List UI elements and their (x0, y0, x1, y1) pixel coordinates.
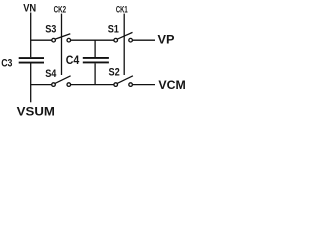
wire CK1 control line (123, 14, 125, 75)
switch S3 (52, 34, 71, 42)
svg-text:VCM: VCM (158, 78, 185, 92)
switch S2 (114, 76, 133, 87)
switch S1 (114, 32, 133, 42)
wire top plate C4 stem (94, 40, 96, 57)
svg-text:C4: C4 (66, 55, 80, 67)
wire S4 to S2 (71, 84, 114, 86)
svg-text:VSUM: VSUM (17, 104, 55, 118)
wire S1 to VP (133, 39, 155, 41)
svg-text:VP: VP (158, 32, 175, 46)
capacitor C4 (83, 58, 109, 63)
svg-text:S3: S3 (45, 23, 56, 35)
wire bottom plate C4 stem (94, 63, 96, 84)
wire VSUM to S4 branch (31, 84, 52, 86)
wire S2 to VCM (133, 84, 155, 86)
svg-text:VN: VN (23, 2, 36, 14)
wire VN to S3 branch (31, 39, 52, 41)
wire CK2 control line (61, 14, 63, 75)
wire C3 to VSUM vertical (30, 64, 32, 103)
svg-text:S2: S2 (109, 66, 120, 78)
capacitor C3 (19, 58, 44, 63)
wire S3 to S1 (71, 39, 114, 41)
svg-text:S4: S4 (45, 68, 57, 80)
svg-text:CK1: CK1 (116, 4, 128, 14)
svg-text:CK2: CK2 (54, 4, 67, 14)
switch S4 (52, 76, 71, 87)
wire VN vertical (30, 13, 32, 58)
svg-text:C3: C3 (1, 57, 12, 69)
svg-text:S1: S1 (108, 23, 119, 35)
